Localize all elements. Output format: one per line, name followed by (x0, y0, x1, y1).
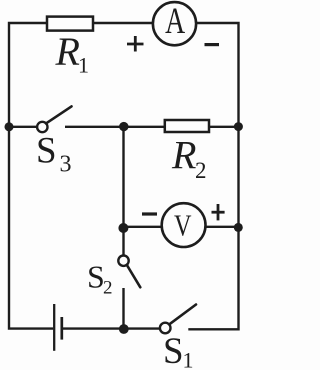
battery cell: long plate (53, 304, 55, 351)
node: center branch / bottom rail junction (119, 324, 129, 334)
svg-text:3: 3 (60, 152, 72, 178)
wire: R1 right terminal to ammeter left terminal (93, 22, 154, 24)
ammeter A (153, 2, 196, 45)
resistor R1 (47, 17, 93, 31)
label: + polarity at voltmeter right (212, 204, 225, 220)
switch S3 pivot (37, 122, 47, 132)
node: voltmeter branch / right rail junction (234, 223, 243, 232)
svg-text:V: V (174, 208, 192, 243)
svg-text:A: A (165, 0, 185, 41)
wire: voltmeter branch from center branch to right rail (124, 226, 239, 228)
label: - polarity at ammeter right (205, 43, 220, 46)
svg-text:R: R (55, 29, 80, 74)
switch S1 pivot (160, 323, 171, 334)
wire: left rail from R1 left terminal around top-left corner down to battery (9, 23, 53, 329)
node: center branch / voltmeter branch junction (118, 223, 128, 233)
node: middle rail / right rail junction (234, 122, 243, 131)
voltmeter V (162, 203, 206, 247)
battery cell: short plate (60, 317, 63, 340)
wire: from ammeter right terminal around top-right corner down right rail to S1 fixed contact (188, 23, 238, 329)
label: + polarity at ammeter left (127, 36, 144, 52)
wire: middle rail from S3 fixed contact through R2 to right rail (65, 126, 239, 128)
wire: middle rail left segment to S3 pivot (9, 126, 38, 128)
svg-text:2: 2 (103, 278, 113, 299)
svg-text:1: 1 (78, 53, 89, 78)
svg-text:S: S (163, 331, 184, 370)
switch S1 blade (open) (170, 305, 197, 325)
svg-text:R: R (171, 133, 196, 178)
switch S3 blade (open) (46, 106, 72, 123)
svg-text:1: 1 (183, 348, 194, 370)
wire: center branch lower segment from S2 fixed contact to bottom rail (122, 288, 124, 329)
svg-text:S: S (36, 130, 57, 171)
switch S2 pivot (118, 256, 128, 266)
svg-text:2: 2 (195, 158, 207, 183)
node: left rail / middle rail junction (5, 122, 14, 131)
resistor R2 (165, 120, 209, 132)
node: middle rail / center branch junction (119, 122, 128, 131)
wire: center branch from middle rail down to S2 pivot (122, 127, 124, 256)
switch S2 blade (open) (127, 265, 141, 287)
wire: bottom rail from battery to S1 pivot (62, 327, 160, 329)
label: - polarity at voltmeter left (142, 212, 157, 215)
